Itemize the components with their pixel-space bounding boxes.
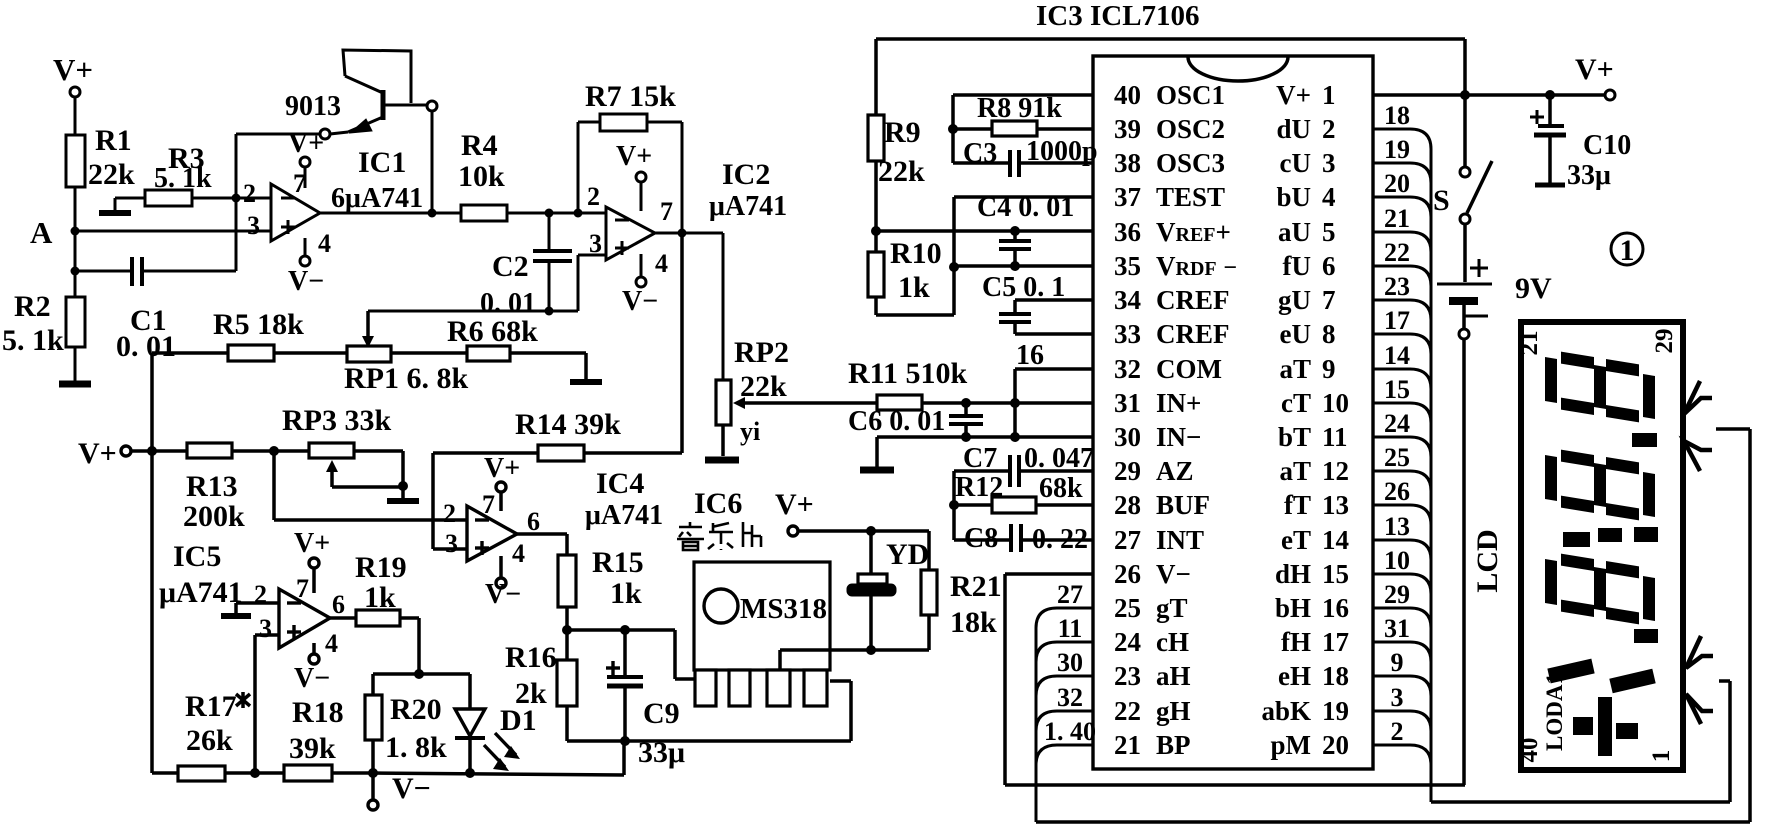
svg-text:9: 9 (1322, 354, 1336, 384)
svg-text:V−: V− (288, 266, 324, 297)
LCD connection arrows (1684, 381, 1713, 724)
resistor R12 68k (954, 472, 1093, 513)
svg-text:25: 25 (1114, 593, 1141, 623)
IC5 pin 7 V+ (294, 528, 330, 603)
circled 1 figure mark (1611, 233, 1643, 267)
svg-text:RP2: RP2 (734, 336, 789, 369)
svg-text:R21: R21 (950, 570, 1002, 603)
pin 26 V- wire to bottom bus (1005, 574, 1093, 785)
svg-text:R18: R18 (292, 696, 344, 729)
VREF- row wire (954, 264, 1093, 268)
svg-text:39: 39 (1114, 114, 1141, 144)
LCD corner pin labels 21 29 40 1 LODA1 (1516, 329, 1678, 763)
svg-text:27: 27 (1114, 525, 1141, 555)
svg-text:18k: 18k (950, 606, 997, 639)
svg-text:15: 15 (1322, 559, 1349, 589)
svg-text:21: 21 (1384, 204, 1410, 233)
LCD digit 8 (bottom) (1545, 551, 1655, 627)
LCD decimal point 3 (1634, 629, 1658, 643)
svg-text:R17: R17 (185, 690, 237, 723)
svg-text:R10: R10 (890, 237, 942, 270)
svg-text:1k: 1k (898, 271, 930, 304)
svg-text:dH: dH (1275, 559, 1311, 589)
svg-text:C2: C2 (492, 250, 529, 283)
svg-text:13: 13 (1384, 512, 1410, 541)
svg-text:3: 3 (445, 529, 458, 558)
svg-text:INT: INT (1156, 525, 1204, 555)
svg-text:6: 6 (332, 590, 345, 619)
bottom rail wire to C9 riser (373, 741, 624, 775)
bottom bus wire 2 (segment bundle to lower LCD arrows) (1431, 681, 1730, 802)
wire IN- row with ground (860, 432, 1093, 470)
svg-text:10: 10 (1384, 546, 1410, 575)
LCD digit 8 (top) (1545, 349, 1655, 425)
svg-text:28: 28 (1114, 490, 1141, 520)
svg-text:9013: 9013 (285, 91, 341, 122)
capacitor C1 0.01 (75, 257, 236, 363)
svg-text:17: 17 (1322, 627, 1349, 657)
svg-text:22k: 22k (740, 370, 787, 403)
svg-text:OSC1: OSC1 (1156, 80, 1225, 110)
capacitor C2 0.01 (480, 213, 572, 319)
svg-text:68k: 68k (1039, 473, 1083, 504)
svg-text:eU: eU (1280, 319, 1311, 349)
svg-text:0. 01: 0. 01 (116, 330, 176, 363)
svg-text:12: 12 (1322, 456, 1349, 486)
svg-text:40: 40 (1114, 80, 1141, 110)
wire R15 node to IC6 pin (675, 630, 695, 679)
bottom bus wire 3 (left bundle to upper LCD arrows) (1036, 429, 1750, 822)
svg-text:29: 29 (1651, 329, 1678, 354)
IC2 pin 4 V- (622, 249, 668, 317)
IC2 pin labels (587, 182, 602, 258)
svg-text:IC2: IC2 (722, 158, 770, 191)
svg-text:TEST: TEST (1156, 182, 1225, 212)
svg-text:IC3 ICL7106: IC3 ICL7106 (1036, 0, 1200, 32)
capacitor C6 0.01 (848, 403, 983, 442)
svg-text:9: 9 (1391, 648, 1404, 677)
IC2 labels (709, 158, 787, 222)
svg-text:21: 21 (1114, 730, 1141, 760)
capacitor C3 1000p (953, 136, 1098, 177)
svg-text:7: 7 (1322, 285, 1336, 315)
svg-text:YD: YD (886, 538, 929, 571)
IC5 labels (159, 540, 243, 609)
wire C2 bottom to RP1 wiper arrow (362, 311, 374, 348)
svg-text:V+: V+ (1575, 53, 1614, 86)
IC6 music chip MS318 (694, 562, 830, 706)
potentiometer RP2 22k (716, 336, 877, 456)
capacitor C4 0.01 (977, 192, 1074, 271)
svg-text:33μ: 33μ (1567, 160, 1611, 191)
svg-text:pM: pM (1271, 730, 1312, 760)
wire IC5 pin3 to R17/R18 node (250, 635, 279, 778)
svg-text:36: 36 (1114, 217, 1141, 247)
svg-text:26k: 26k (186, 724, 233, 757)
svg-text:6: 6 (527, 507, 540, 536)
svg-text:33: 33 (1114, 319, 1141, 349)
svg-text:4: 4 (655, 249, 668, 278)
svg-text:V+: V+ (53, 52, 93, 87)
svg-text:2: 2 (1322, 114, 1336, 144)
IC1 pin labels 2 3 6 (243, 179, 260, 240)
svg-text:OSC3: OSC3 (1156, 148, 1225, 178)
svg-text:22k: 22k (878, 155, 925, 188)
svg-text:fU: fU (1283, 251, 1312, 281)
svg-text:μA741: μA741 (709, 191, 787, 222)
svg-text:COM: COM (1156, 354, 1222, 384)
svg-text:fH: fH (1281, 627, 1311, 657)
ground below RP3 (387, 487, 419, 501)
ground stub at R3 left (99, 210, 131, 216)
IC5 pin 4 V- (294, 629, 338, 694)
capacitor C9 33u electrolytic (567, 625, 685, 769)
svg-text:R20: R20 (390, 693, 442, 726)
svg-text:CREF: CREF (1156, 285, 1230, 315)
svg-text:V−: V− (1156, 559, 1191, 589)
svg-text:34: 34 (1114, 285, 1141, 315)
svg-text:37: 37 (1114, 182, 1141, 212)
svg-text:R5 18k: R5 18k (213, 308, 304, 341)
svg-text:V+: V+ (484, 453, 520, 484)
svg-text:V−: V− (622, 286, 658, 317)
LED D1 (455, 674, 537, 778)
resistor R2 5.1k (2, 290, 85, 382)
resistor R17* 26k (152, 690, 250, 781)
piezo buzzer YD (847, 531, 929, 655)
IC3 body rectangle with notch (1093, 56, 1373, 769)
svg-text:1. 8k: 1. 8k (385, 731, 447, 764)
resistor R15 1k (517, 534, 644, 635)
svg-text:R7 15k: R7 15k (585, 80, 676, 113)
svg-text:cT: cT (1281, 388, 1311, 418)
capacitor C8 0.22 (954, 523, 1093, 555)
svg-text:18: 18 (1322, 661, 1349, 691)
svg-text:A: A (30, 215, 53, 250)
svg-text:9V: 9V (1515, 272, 1552, 305)
IC4 pin labels 2 3 6 (443, 499, 540, 558)
svg-text:5: 5 (1322, 217, 1336, 247)
svg-text:R15: R15 (592, 546, 644, 579)
svg-text:IC1: IC1 (358, 146, 406, 179)
wire IC6 pin to YD/R21 bottom (780, 650, 929, 670)
svg-text:aT: aT (1279, 354, 1311, 384)
resistor R3 5.1k (115, 142, 212, 211)
resistor R4 10k (458, 129, 606, 221)
ground at R6 right (570, 379, 602, 385)
svg-text:yi: yi (740, 417, 760, 446)
svg-text:aU: aU (1278, 217, 1311, 247)
svg-text:29: 29 (1384, 580, 1410, 609)
svg-text:23: 23 (1114, 661, 1141, 691)
LCD digit 8 (middle) (1545, 447, 1655, 523)
svg-text:R1: R1 (95, 124, 132, 157)
svg-text:MS318: MS318 (740, 593, 827, 625)
svg-text:6: 6 (1322, 251, 1336, 281)
svg-text:18: 18 (1384, 101, 1410, 130)
svg-text:R11 510k: R11 510k (848, 357, 968, 390)
svg-text:R9: R9 (884, 116, 921, 149)
node V+ terminal above IC6 (775, 488, 929, 536)
IC5 pin2 ground stub (221, 603, 279, 616)
svg-text:19: 19 (1384, 135, 1410, 164)
IC1 labels (331, 146, 423, 214)
svg-text:eT: eT (1281, 525, 1311, 555)
svg-text:200k: 200k (183, 500, 245, 533)
IC5 pin labels 2 3 6 (254, 580, 345, 643)
svg-text:32: 32 (1114, 354, 1141, 384)
svg-text:D1: D1 (500, 704, 537, 737)
svg-text:C4 0. 01: C4 0. 01 (977, 192, 1074, 223)
svg-text:22: 22 (1114, 696, 1141, 726)
svg-text:10k: 10k (458, 160, 505, 193)
svg-text:4: 4 (512, 539, 525, 568)
svg-text:30: 30 (1057, 648, 1083, 677)
svg-text:eH: eH (1278, 661, 1311, 691)
resistor R1 22k (66, 124, 135, 229)
svg-text:C9: C9 (643, 697, 680, 730)
svg-text:25: 25 (1384, 443, 1410, 472)
potentiometer RP3 33k (282, 404, 408, 491)
LCD decimal point 1 (1632, 433, 1657, 447)
IC3 right pin stubs to LCD (1373, 129, 1431, 802)
svg-text:1: 1 (1322, 80, 1336, 110)
svg-text:22k: 22k (88, 158, 135, 191)
svg-text:R6 68k: R6 68k (447, 315, 538, 348)
op-amp IC2 uA741 (606, 207, 655, 260)
svg-text:10: 10 (1322, 388, 1349, 418)
svg-text:gT: gT (1156, 593, 1188, 623)
battery 9V (1437, 259, 1552, 339)
resistor R5 18k (152, 308, 347, 361)
transistor 9013 (285, 50, 437, 139)
resistor R7 15k feedback (578, 80, 682, 233)
IC6 labels (694, 487, 742, 520)
LCD colon dots and decimal point 2 (1563, 527, 1658, 547)
resistor R11 510k (848, 357, 1093, 410)
svg-text:V−: V− (392, 772, 431, 805)
svg-text:IC6: IC6 (694, 487, 742, 520)
svg-text:μA741: μA741 (585, 500, 663, 531)
svg-text:2: 2 (1391, 717, 1404, 746)
bottom bus wire 1 (V- to battery) (1005, 783, 1465, 787)
svg-text:IN−: IN− (1156, 422, 1201, 452)
svg-text:40: 40 (1516, 738, 1543, 763)
svg-text:7: 7 (296, 574, 309, 603)
resistor R20 1.8k (365, 674, 447, 778)
resistor R10 1k (868, 231, 954, 315)
svg-text:IC5: IC5 (173, 540, 221, 573)
resistor R16 2k (505, 630, 577, 741)
svg-text:cU: cU (1280, 148, 1311, 178)
resistor R18 39k (225, 696, 373, 781)
node V+ terminal (left middle) (78, 437, 187, 470)
wire IC2 pin3 network (368, 255, 606, 316)
svg-text:30: 30 (1114, 422, 1141, 452)
svg-text:V+: V+ (78, 437, 117, 470)
svg-text:31: 31 (1384, 614, 1410, 643)
wire R3 to IC1 pin 2 (192, 197, 271, 200)
svg-text:R13: R13 (186, 470, 238, 503)
LCD display module (1521, 322, 1683, 770)
svg-text:14: 14 (1384, 341, 1410, 370)
svg-text:μA741: μA741 (159, 576, 243, 609)
svg-text:RP1 6. 8k: RP1 6. 8k (344, 362, 468, 395)
potentiometer RP1 6.8k (344, 346, 468, 395)
svg-text:5. 1k: 5. 1k (2, 324, 64, 357)
svg-text:19: 19 (1322, 696, 1349, 726)
capacitor C10 33u electrolytic (1530, 95, 1631, 191)
svg-text:AZ: AZ (1156, 456, 1194, 486)
resistor R19 1k (330, 551, 424, 679)
LCD half digit 1 (1549, 666, 1654, 686)
wire transistor to IC1 output node (320, 111, 461, 218)
svg-text:V−: V− (485, 579, 521, 610)
svg-text:4: 4 (325, 629, 338, 658)
resistor R21 18k (921, 531, 1002, 650)
svg-text:32: 32 (1057, 683, 1083, 712)
svg-text:3: 3 (259, 614, 272, 643)
op-amp region top supply wire (long V+ top wire) (876, 39, 1465, 95)
op-amp IC5 uA741 (279, 589, 330, 648)
battery negative wire to bus (1462, 339, 1466, 785)
svg-text:R19: R19 (355, 551, 407, 584)
svg-text:3: 3 (247, 211, 260, 240)
svg-text:26: 26 (1114, 559, 1141, 589)
switch S (1433, 95, 1492, 282)
resistor R13 200k (183, 443, 309, 533)
svg-text:2: 2 (243, 179, 256, 208)
svg-text:dU: dU (1276, 114, 1311, 144)
IC3 left pin stubs (1036, 608, 1093, 822)
IC6 chinese label (music chip) (677, 522, 761, 550)
svg-text:11: 11 (1322, 422, 1348, 452)
ground below RP2 (705, 457, 739, 464)
resistor R14 39k feedback (433, 233, 682, 549)
svg-text:35: 35 (1114, 251, 1141, 281)
op-amp IC4 uA741 (467, 506, 517, 561)
svg-text:gU: gU (1278, 285, 1311, 315)
wire R19 to R20/D1 top (373, 672, 470, 676)
svg-text:LODA1: LODA1 (1542, 673, 1567, 751)
svg-text:V+: V+ (1276, 80, 1311, 110)
TEST row wire / C4 box (949, 197, 1093, 272)
capacitor C5 0.1 (982, 272, 1093, 334)
VREF+ row wire (876, 226, 1093, 236)
resistor R8 91k (953, 93, 1093, 136)
svg-text:bH: bH (1275, 593, 1311, 623)
IC4 labels (585, 467, 663, 531)
svg-text:27: 27 (1057, 580, 1083, 609)
svg-text:RP3 33k: RP3 33k (282, 404, 391, 437)
svg-text:4: 4 (1322, 182, 1336, 212)
svg-text:1: 1 (1648, 750, 1675, 763)
svg-text:21: 21 (1516, 331, 1543, 356)
wire IC6 right pin loop to bottom rail (567, 681, 851, 741)
svg-text:4: 4 (318, 229, 331, 258)
svg-text:abK: abK (1261, 696, 1311, 726)
svg-text:7: 7 (482, 490, 495, 519)
pin16 stub COM row (1015, 340, 1093, 437)
svg-text:2: 2 (587, 182, 600, 211)
svg-text:gH: gH (1156, 696, 1191, 726)
svg-text:OSC2: OSC2 (1156, 114, 1225, 144)
svg-text:39k: 39k (289, 732, 336, 765)
svg-text:bU: bU (1276, 182, 1311, 212)
svg-text:16: 16 (1016, 340, 1044, 371)
svg-text:24: 24 (1114, 627, 1141, 657)
IC2 pin 7 V+ (616, 141, 673, 226)
left V+ rail vertical (147, 353, 157, 773)
svg-text:3: 3 (1391, 683, 1404, 712)
svg-text:1. 40: 1. 40 (1044, 717, 1096, 746)
capacitor C7 0.047 (949, 443, 1094, 540)
svg-text:20: 20 (1322, 730, 1349, 760)
svg-text:26: 26 (1384, 477, 1410, 506)
svg-text:13: 13 (1322, 490, 1349, 520)
node A (30, 215, 80, 250)
IC2 output wire to RP2 (655, 229, 723, 381)
IC1 pin 7 V+ (288, 128, 324, 198)
svg-text:R8 91k: R8 91k (977, 93, 1062, 124)
svg-text:aH: aH (1156, 661, 1191, 691)
node V- terminal bottom (368, 772, 431, 810)
IC4 pin 7 V+ (482, 453, 520, 519)
svg-text:31: 31 (1114, 388, 1141, 418)
svg-text:11: 11 (1058, 614, 1083, 643)
svg-text:C10: C10 (1583, 130, 1631, 161)
svg-text:7: 7 (660, 197, 673, 226)
IC4 pin 4 V- (485, 539, 525, 610)
svg-text:6μA741: 6μA741 (331, 183, 423, 214)
OSC rows rail (948, 95, 1093, 163)
svg-text:22: 22 (1384, 238, 1410, 267)
svg-text:LCD: LCD (1471, 529, 1504, 592)
svg-text:R4: R4 (461, 129, 498, 162)
LCD minus / polarity sign (1573, 697, 1638, 756)
svg-text:14: 14 (1322, 525, 1349, 555)
node V+ terminal top right (1373, 53, 1615, 100)
svg-text:15: 15 (1384, 375, 1410, 404)
svg-text:V−: V− (294, 663, 330, 694)
op-amp IC1 uA741 (271, 184, 320, 241)
svg-text:1k: 1k (364, 581, 396, 614)
svg-text:V+: V+ (616, 141, 652, 172)
IC1 pin 4 V- (288, 229, 331, 297)
svg-text:R2: R2 (14, 290, 51, 323)
svg-text:20: 20 (1384, 169, 1410, 198)
node V+ supply terminal (top left) (53, 52, 93, 135)
svg-text:38: 38 (1114, 148, 1141, 178)
svg-text:16: 16 (1322, 593, 1349, 623)
svg-text:3: 3 (1322, 148, 1336, 178)
svg-text:bT: bT (1278, 422, 1311, 452)
svg-text:5. 1k: 5. 1k (154, 163, 212, 194)
resistor R6 68k (447, 315, 586, 379)
svg-text:C6 0. 01: C6 0. 01 (848, 406, 945, 437)
svg-text:BUF: BUF (1156, 490, 1210, 520)
svg-text:V+: V+ (294, 528, 330, 559)
svg-text:7: 7 (293, 169, 306, 198)
svg-text:8: 8 (1322, 319, 1336, 349)
svg-text:CREF: CREF (1156, 319, 1230, 349)
svg-text:fT: fT (1284, 490, 1311, 520)
wire node A to IC1 pin 3 (75, 230, 271, 233)
wire C1 to emitter node (232, 134, 321, 271)
svg-text:2: 2 (443, 499, 456, 528)
svg-text:aT: aT (1279, 456, 1311, 486)
svg-text:BP: BP (1156, 730, 1191, 760)
